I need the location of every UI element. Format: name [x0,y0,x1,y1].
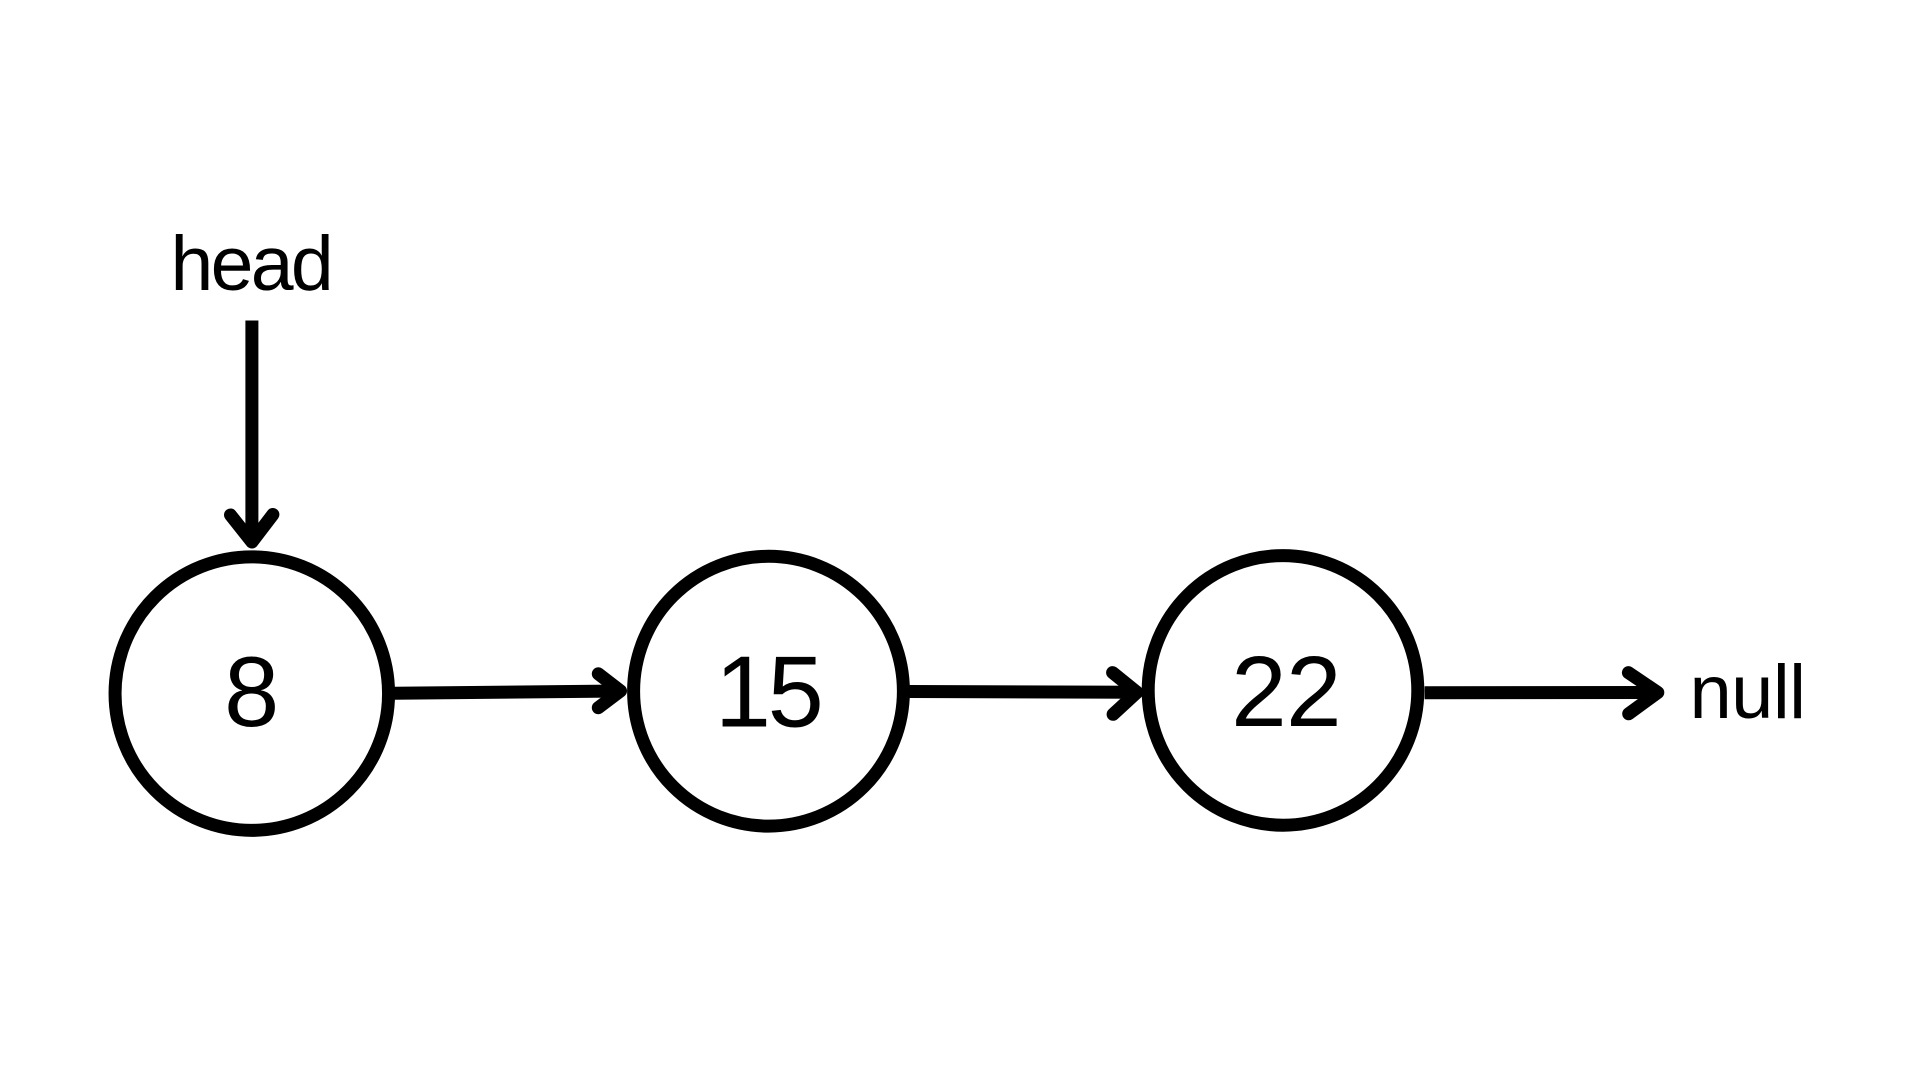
wire arrow 15 to 22 shaft [910,685,1138,699]
svg-text:15: 15 [715,637,821,749]
node 22 circle [1148,556,1418,826]
arrowhead into 15 [598,674,620,708]
node 15 circle [634,556,904,826]
svg-text:22: 22 [1231,636,1341,748]
svg-text:head: head [171,221,332,307]
wire arrow 22 to null shaft [1425,686,1658,699]
arrowhead to null [1628,673,1657,714]
node 8 circle [115,557,389,831]
wire head arrow shaft [245,321,258,543]
head arrowhead [231,515,273,543]
wire arrow 8 to 15 shaft [395,691,621,693]
svg-text:null: null [1690,650,1806,735]
arrowhead into 22 [1113,673,1137,715]
svg-text:8: 8 [224,636,279,747]
